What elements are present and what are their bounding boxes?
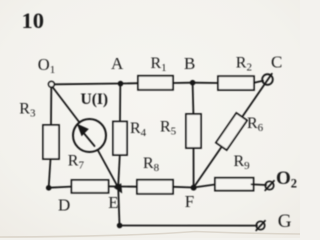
- wire F-R9: [194, 185, 215, 188]
- wire D-R7 (bottom left): [49, 187, 72, 188]
- terminal circle C: [262, 74, 273, 85]
- resistor R8: [137, 180, 173, 194]
- wire A-R4 (vertical under A): [119, 84, 121, 122]
- terminal slash O2: [265, 181, 274, 191]
- svg-text:B: B: [184, 54, 195, 73]
- wire O1-R3 (left vertical): [50, 88, 52, 125]
- current source arrow: [82, 131, 95, 146]
- wire R3-D: [49, 159, 51, 188]
- resistor R7: [72, 180, 109, 193]
- wire R9-O2: [252, 183, 267, 186]
- wire R1-B: [173, 82, 193, 84]
- wire B-R5 (vertical under B): [192, 83, 195, 114]
- svg-text:G: G: [278, 211, 292, 232]
- wire source-E: [98, 151, 119, 190]
- terminal slash G: [256, 221, 265, 231]
- wire Gline (bottom horizontal to G): [120, 225, 258, 227]
- arrowhead at E: [114, 183, 122, 193]
- node D: [46, 185, 52, 191]
- node E: [115, 184, 121, 190]
- wire R2-C: [254, 81, 263, 83]
- wire R7-E: [109, 185, 119, 187]
- svg-text:10: 10: [22, 8, 45, 33]
- svg-text:E: E: [108, 193, 118, 212]
- faint page-bottom scan artifact: [0, 232, 300, 238]
- node A: [118, 81, 124, 87]
- resistor R2: [218, 76, 254, 90]
- node B: [190, 80, 196, 86]
- terminal circle O2: [265, 181, 273, 189]
- wire R4-E: [118, 155, 120, 186]
- wire O1-A (top left horizontal): [55, 83, 121, 86]
- wire A-R1: [121, 82, 139, 84]
- svg-text:A: A: [111, 54, 124, 73]
- wire B-R2: [193, 82, 219, 84]
- svg-text:D: D: [58, 196, 70, 215]
- node F: [191, 185, 197, 191]
- resistor R1: [138, 76, 173, 90]
- wire diagonal C-F (through R6): [194, 74, 272, 188]
- terminal circle G: [256, 221, 264, 229]
- resistor R5: [186, 114, 201, 148]
- node O1: [49, 81, 55, 87]
- current source U(I) circle: [73, 119, 106, 152]
- resistor R4: [113, 122, 127, 156]
- svg-text:C: C: [271, 53, 282, 72]
- resistor R6: [216, 113, 247, 150]
- svg-text:F: F: [185, 192, 194, 211]
- svg-text:U(I): U(I): [81, 91, 109, 108]
- resistor R3: [43, 125, 59, 159]
- wire E-Gline (vertical below E): [118, 187, 119, 226]
- resistor R9: [215, 178, 254, 191]
- wire E-R8: [118, 186, 137, 188]
- wire R8-F: [173, 186, 194, 189]
- wire R5-F: [193, 148, 195, 187]
- node G-line corner: [117, 223, 123, 229]
- wire diagonal O1-source: [53, 87, 80, 123]
